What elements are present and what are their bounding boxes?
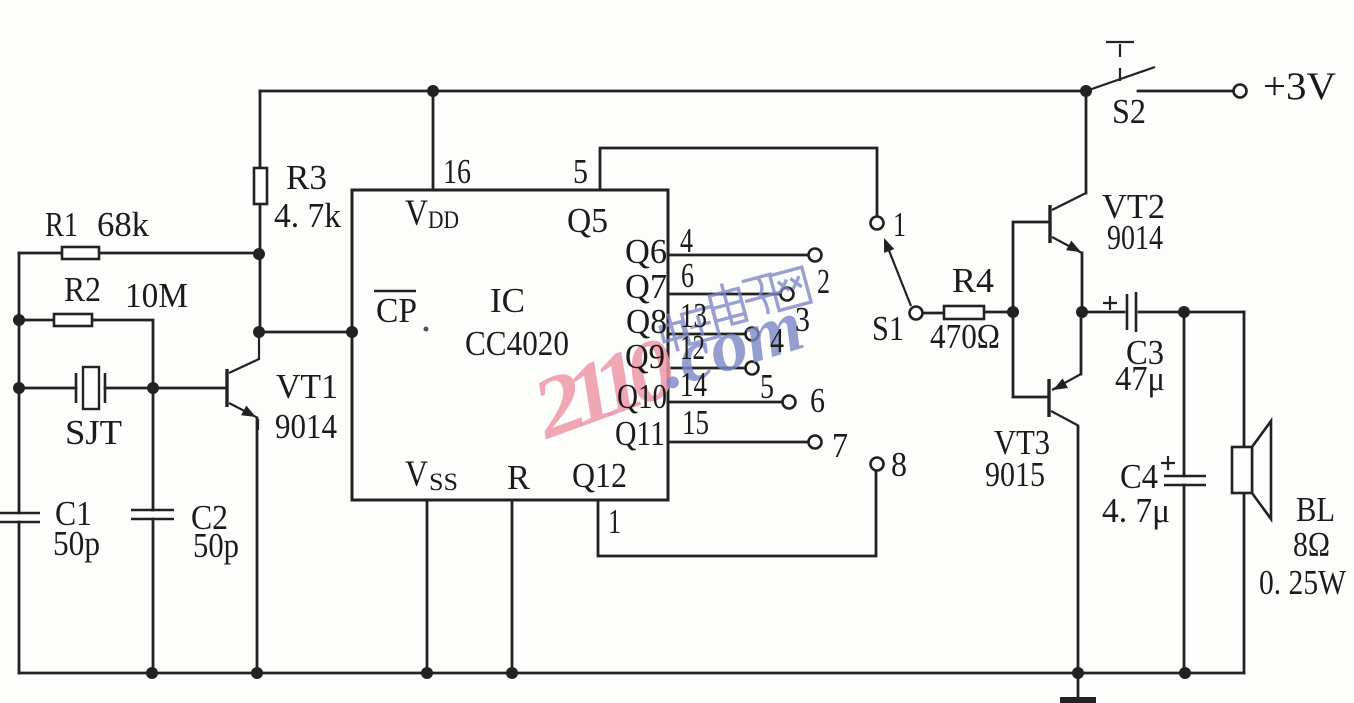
svg-text:IC: IC (490, 281, 525, 320)
wire S2 to +3V terminal (1138, 90, 1233, 93)
node junction S2 (1080, 85, 1092, 97)
svg-text:68k: 68k (97, 205, 149, 244)
node S1 common (910, 307, 923, 320)
ground (1060, 697, 1096, 703)
wire R2 right lead (91, 320, 153, 388)
svg-text:6: 6 (681, 256, 694, 295)
watermark 21ic (519, 318, 688, 458)
svg-text:50p: 50p (53, 524, 100, 563)
svg-text:3: 3 (795, 300, 810, 339)
capacitor C4 plus sign (1161, 456, 1175, 470)
svg-text:4. 7k: 4. 7k (274, 196, 341, 235)
svg-text:8: 8 (891, 445, 907, 484)
wire R2 left lead (19, 319, 55, 322)
svg-text:9015: 9015 (985, 455, 1045, 494)
svg-text:CC4020: CC4020 (465, 324, 569, 363)
wire C4 top riser (1183, 312, 1186, 476)
node junction C4 ground (1179, 667, 1191, 679)
wire VT3 collector drop (1077, 427, 1080, 673)
transistor VT3 (1049, 374, 1081, 426)
svg-text:12: 12 (680, 328, 705, 367)
svg-text:14: 14 (680, 365, 707, 404)
svg-text:SS: SS (429, 469, 458, 496)
svg-text:VT1: VT1 (276, 367, 338, 406)
wire VT3 emitter riser (1080, 312, 1083, 374)
crystal SJT (76, 367, 105, 409)
node junction crystal right (147, 382, 159, 394)
switch S2 pushbutton (1086, 42, 1155, 91)
node contact 2 (809, 249, 822, 262)
wire R3 column top (259, 91, 262, 168)
wire IC pin VSS (426, 500, 429, 673)
node junction C3 C4 (1178, 306, 1190, 318)
wire CP node to IC pin 10 (260, 331, 352, 334)
node junction emitters C3 (1076, 306, 1088, 318)
svg-text:15: 15 (682, 403, 709, 442)
wire C4 bottom lead (1183, 485, 1186, 673)
resistor R4 (944, 306, 984, 319)
svg-text:47μ: 47μ (1115, 359, 1165, 398)
svg-text:CP: CP (376, 291, 417, 330)
svg-text:Q12: Q12 (572, 456, 627, 495)
wire C2 bottom lead (152, 519, 155, 673)
watermark char guo (682, 306, 720, 344)
wire Q12 pin 1 to contact 8 (598, 471, 876, 556)
wire VT2 collector riser (1085, 91, 1088, 193)
wire C2 top riser (152, 388, 155, 510)
watermark char zi (740, 273, 786, 319)
transistor VT1 (227, 332, 259, 430)
wire IC pin 5 Q5 to contact 1 (600, 148, 877, 216)
resistor R3 (254, 168, 267, 204)
svg-text:4. 7μ: 4. 7μ (1102, 491, 1170, 530)
node contact 4 (746, 328, 759, 341)
watermark char dian (707, 280, 747, 328)
svg-text:R3: R3 (286, 158, 327, 197)
svg-text:Q11: Q11 (615, 414, 665, 453)
svg-text:SJT: SJT (65, 413, 122, 452)
capacitor C3 plus sign (1103, 296, 1117, 310)
wire R3 bottom to CP node (259, 204, 262, 332)
svg-text:BL: BL (1296, 490, 1335, 529)
wire IC pin 16 (432, 91, 435, 189)
svg-text:R4: R4 (952, 261, 994, 300)
svg-text:1: 1 (608, 502, 621, 541)
svg-text:10M: 10M (125, 276, 188, 315)
svg-text:Q7: Q7 (625, 267, 667, 306)
svg-text:Q9: Q9 (625, 337, 665, 376)
node junction crystal left (13, 382, 25, 394)
node contact 3 (781, 288, 794, 301)
svg-text:R1: R1 (45, 205, 78, 244)
svg-text:7: 7 (832, 426, 848, 465)
svg-text:S1: S1 (872, 309, 904, 348)
node +3V terminal (1234, 85, 1247, 98)
svg-text:0. 25W: 0. 25W (1259, 563, 1346, 602)
svg-text:Q5: Q5 (567, 201, 608, 240)
node junction R2 left (13, 314, 25, 326)
node junction R1 R3 (253, 248, 265, 260)
switch S1 rotary wiper (884, 238, 911, 306)
svg-text:2: 2 (817, 262, 830, 301)
watermark char wang (770, 267, 811, 310)
wire left column (18, 253, 21, 513)
wire bottom ground rail (19, 672, 1244, 675)
svg-text:Q8: Q8 (626, 302, 667, 341)
wire Q6 pin 4 to contact 2 (668, 254, 808, 257)
wire R1 right lead (99, 252, 260, 255)
capacitor C1 (0, 513, 40, 522)
wire C1 bottom lead (18, 522, 21, 673)
wire Q8 pin 13 to contact 4 (668, 333, 745, 336)
node contact 5 (746, 362, 759, 375)
svg-text:V: V (405, 193, 428, 234)
svg-text:50p: 50p (193, 526, 239, 565)
wire R4 left lead (923, 312, 944, 315)
wire C3 right lead (1139, 311, 1244, 314)
svg-text:DD: DD (428, 207, 459, 234)
node contact 7 (809, 436, 822, 449)
node junction VT1 emitter ground (251, 667, 263, 679)
resistor R1 (62, 247, 99, 259)
node contact 6 (783, 396, 796, 409)
wire speaker bottom drop (1243, 493, 1246, 673)
svg-text:R2: R2 (64, 270, 101, 309)
wire R1 left lead (19, 252, 62, 255)
svg-text:8Ω: 8Ω (1293, 525, 1330, 564)
svg-text:5: 5 (760, 367, 774, 406)
node junction R ground (506, 667, 518, 679)
op-amp U1 IC CC4020 box (352, 190, 668, 500)
wire crystal right lead to VT1 base (105, 387, 227, 390)
svg-text:470Ω: 470Ω (930, 317, 1000, 356)
svg-text:S2: S2 (1112, 92, 1146, 131)
stray ink dot (424, 327, 429, 332)
node junction CP (253, 326, 265, 338)
svg-text:+3V: +3V (1263, 65, 1336, 108)
wire top VDD rail (260, 90, 1086, 93)
svg-text:9014: 9014 (275, 407, 337, 446)
resistor R2 (54, 314, 92, 326)
wire Q7 pin 6 to contact 3 (668, 293, 780, 296)
node contact 8 (871, 458, 884, 471)
svg-text:6: 6 (810, 381, 825, 420)
svg-text:16: 16 (443, 152, 471, 191)
wire C3 left lead (1082, 311, 1124, 314)
node junction VT3 ground (1072, 667, 1084, 679)
svg-text:R: R (507, 458, 531, 497)
wire speaker top riser (1243, 312, 1246, 447)
wire crystal left lead (19, 387, 76, 390)
svg-text:9014: 9014 (1107, 218, 1163, 257)
wire Q10 pin 14 to contact 6 (668, 401, 782, 404)
svg-text:4: 4 (680, 221, 693, 260)
svg-text:5: 5 (573, 152, 588, 191)
svg-text:1: 1 (893, 205, 906, 244)
wire R4 right lead (984, 311, 1013, 314)
node contact 1 (871, 217, 884, 230)
svg-text:4: 4 (770, 321, 784, 360)
svg-text:V: V (405, 454, 428, 495)
speaker BL (1232, 421, 1271, 519)
node junction VSS ground (421, 667, 433, 679)
wire VT2 emitter drop (1081, 253, 1084, 312)
capacitor C2 (131, 510, 174, 519)
wire base rail VT2/VT3 (1013, 222, 1049, 397)
capacitor C3 plates (1127, 292, 1136, 332)
wire ground stub (1077, 673, 1080, 697)
watermark char zhong (657, 311, 688, 354)
wire Q9 pin 12 to contact 5 (668, 367, 745, 370)
node junction CP at IC edge (346, 326, 358, 338)
node junction pin16 rail (427, 85, 439, 97)
wire IC pin R (511, 500, 514, 673)
transistor VT2 (1050, 193, 1086, 253)
node junction R4 base rail (1007, 306, 1019, 318)
capacitor C4 plates (1164, 476, 1206, 485)
node junction C2 ground (146, 667, 158, 679)
svg-text:Q10: Q10 (617, 377, 667, 416)
wire VT1 emitter drop (256, 419, 259, 673)
svg-text:Q6: Q6 (625, 232, 667, 271)
wire Q11 pin 15 to contact 7 (668, 441, 808, 444)
